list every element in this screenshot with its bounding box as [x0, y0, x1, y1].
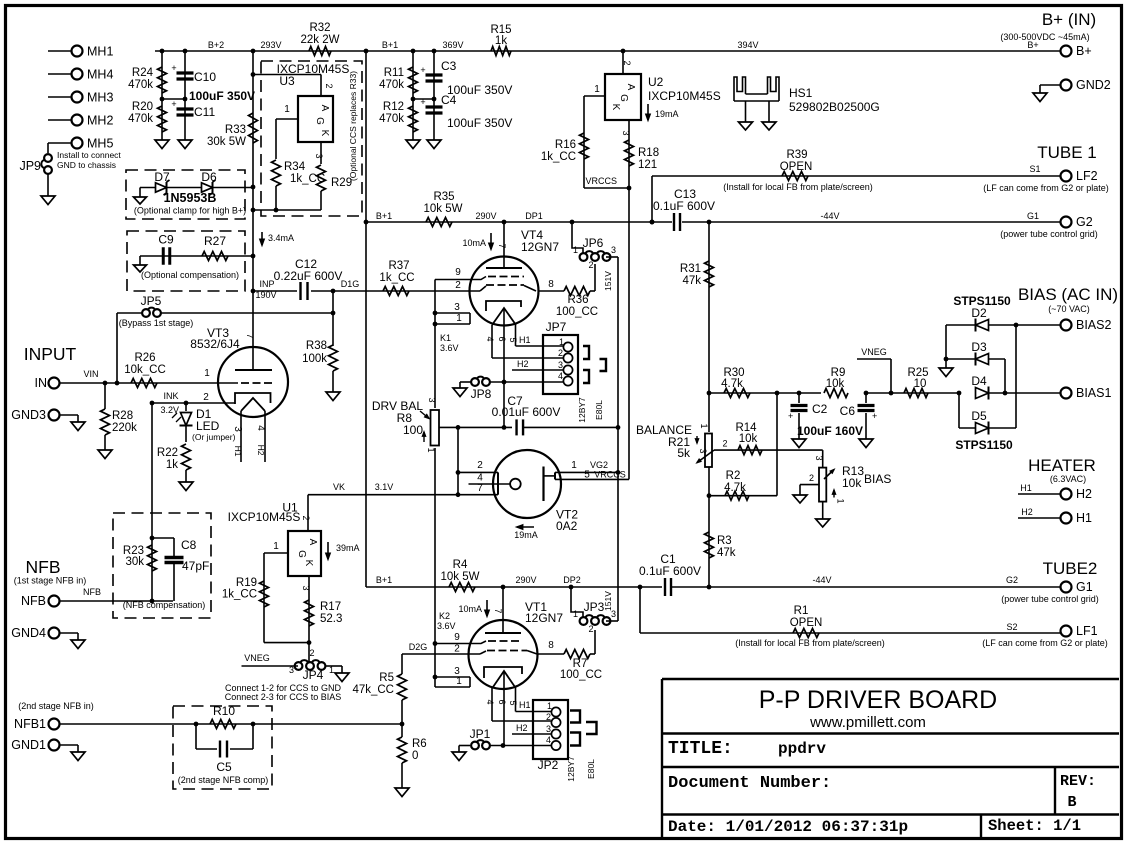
svg-text:INPUT: INPUT [24, 344, 77, 364]
svg-text:R39: R39 [786, 149, 807, 161]
svg-text:-44V: -44V [812, 575, 831, 585]
svg-text:1k: 1k [495, 35, 507, 47]
svg-text:G: G [296, 550, 307, 558]
svg-text:6: 6 [497, 336, 507, 341]
svg-text:1: 1 [284, 104, 290, 115]
svg-text:ppdrv: ppdrv [778, 740, 826, 758]
svg-text:394V: 394V [737, 40, 758, 50]
svg-text:H1: H1 [233, 446, 243, 457]
svg-text:H2: H2 [256, 445, 266, 456]
svg-text:TUBE2: TUBE2 [1043, 559, 1098, 578]
svg-text:MH4: MH4 [87, 68, 113, 82]
svg-text:(6.3VAC): (6.3VAC) [1050, 474, 1086, 484]
svg-text:(Or jumper): (Or jumper) [192, 432, 236, 442]
svg-text:(300-500VDC ~45mA): (300-500VDC ~45mA) [1000, 32, 1089, 42]
svg-text:3.6V: 3.6V [437, 621, 456, 631]
svg-text:R22: R22 [157, 447, 178, 459]
svg-text:3.4mA: 3.4mA [268, 233, 294, 243]
svg-text:R19: R19 [236, 577, 257, 589]
svg-text:U3: U3 [279, 74, 295, 88]
svg-text:REV:: REV: [1060, 773, 1096, 790]
svg-text:LED: LED [196, 419, 220, 433]
svg-text:3: 3 [611, 245, 616, 255]
svg-text:19mA: 19mA [514, 530, 538, 540]
svg-text:39mA: 39mA [336, 543, 360, 553]
svg-text:BIAS2: BIAS2 [1076, 318, 1111, 332]
svg-text:9: 9 [454, 632, 460, 643]
svg-text:100uF 350V: 100uF 350V [447, 83, 512, 97]
svg-text:100uF 160V: 100uF 160V [797, 424, 863, 438]
svg-text:S2: S2 [1006, 622, 1017, 632]
svg-text:10k_CC: 10k_CC [124, 364, 166, 376]
svg-text:K1: K1 [440, 333, 451, 343]
svg-text:Date: 1/01/2012 06:37:31p: Date: 1/01/2012 06:37:31p [668, 818, 908, 836]
svg-text:H1: H1 [519, 700, 531, 710]
svg-text:47k: 47k [717, 547, 736, 559]
svg-text:R6: R6 [412, 738, 427, 750]
svg-text:JP7: JP7 [546, 320, 567, 334]
svg-text:R24: R24 [132, 67, 154, 79]
svg-text:H2: H2 [1021, 507, 1033, 517]
svg-text:10k: 10k [826, 378, 845, 390]
svg-text:22k 2W: 22k 2W [301, 34, 340, 46]
svg-text:3: 3 [314, 153, 324, 158]
svg-text:JP8: JP8 [471, 387, 492, 401]
svg-text:3: 3 [301, 585, 311, 590]
svg-text:8: 8 [548, 640, 554, 651]
svg-text:IN: IN [35, 376, 48, 390]
svg-text:4.7k: 4.7k [724, 482, 746, 494]
svg-text:B+ (IN): B+ (IN) [1042, 10, 1096, 29]
svg-text:JP4: JP4 [303, 668, 324, 682]
svg-text:2: 2 [722, 439, 727, 449]
svg-text:S1: S1 [1029, 164, 1040, 174]
svg-text:G: G [618, 94, 629, 102]
svg-text:2: 2 [622, 60, 632, 65]
svg-text:NFB: NFB [83, 587, 101, 597]
svg-text:B+2: B+2 [208, 40, 224, 50]
svg-text:(2nd stage NFB comp): (2nd stage NFB comp) [178, 775, 269, 785]
svg-text:1: 1 [329, 665, 334, 675]
svg-text:5: 5 [508, 337, 518, 342]
svg-text:G: G [314, 117, 325, 125]
svg-text:G2: G2 [1076, 215, 1093, 229]
svg-text:1: 1 [836, 498, 846, 503]
svg-text:7: 7 [493, 608, 503, 613]
svg-text:+: + [420, 65, 425, 75]
svg-text:7: 7 [477, 483, 483, 494]
svg-text:10k 5W: 10k 5W [441, 571, 480, 583]
svg-text:A: A [625, 84, 636, 91]
svg-text:0A2: 0A2 [556, 519, 578, 533]
svg-text:2: 2 [454, 644, 460, 655]
svg-text:0.1uF 600V: 0.1uF 600V [653, 199, 715, 213]
svg-text:MH2: MH2 [87, 114, 113, 128]
svg-text:470k: 470k [379, 79, 404, 91]
svg-text:3: 3 [289, 665, 294, 675]
svg-text:3: 3 [546, 724, 551, 734]
svg-text:VK: VK [333, 482, 345, 492]
svg-text:47k_CC: 47k_CC [352, 684, 394, 696]
svg-text:GND3: GND3 [11, 408, 46, 422]
svg-text:5: 5 [584, 470, 590, 481]
svg-text:C3: C3 [441, 59, 457, 73]
svg-text:5: 5 [508, 700, 518, 705]
svg-text:IXCP10M45S: IXCP10M45S [228, 510, 301, 524]
svg-text:R17: R17 [320, 601, 341, 613]
svg-text:G2: G2 [1006, 575, 1018, 585]
svg-text:529802B02500G: 529802B02500G [789, 100, 880, 114]
svg-text:5k: 5k [677, 446, 691, 460]
svg-text:HS1: HS1 [789, 86, 813, 100]
svg-text:www.pmillett.com: www.pmillett.com [809, 714, 926, 731]
svg-text:4.7k: 4.7k [721, 378, 743, 390]
svg-text:3: 3 [454, 302, 460, 313]
svg-text:2: 2 [546, 712, 551, 722]
svg-text:H1: H1 [1020, 483, 1032, 493]
svg-text:STPS1150: STPS1150 [955, 438, 1013, 452]
svg-text:VIN: VIN [83, 369, 98, 379]
svg-text:47pF: 47pF [182, 559, 209, 573]
svg-text:100_CC: 100_CC [556, 306, 598, 318]
svg-text:+: + [788, 411, 793, 421]
svg-text:R1: R1 [794, 605, 809, 617]
svg-text:GND2: GND2 [1076, 78, 1111, 92]
svg-text:30k: 30k [125, 556, 144, 568]
svg-text:1: 1 [456, 676, 462, 687]
svg-text:D6: D6 [201, 170, 217, 184]
svg-text:VG2: VG2 [590, 460, 608, 470]
svg-text:Install to connect: Install to connect [57, 150, 121, 160]
svg-text:VRCCS: VRCCS [585, 176, 617, 186]
svg-text:H2: H2 [517, 359, 529, 369]
svg-text:100_CC: 100_CC [560, 669, 602, 681]
svg-text:TUBE 1: TUBE 1 [1037, 143, 1097, 162]
svg-text:R37: R37 [388, 260, 409, 272]
svg-text:1k: 1k [166, 459, 178, 471]
svg-text:B+: B+ [1027, 40, 1038, 50]
svg-text:1: 1 [559, 337, 564, 347]
svg-text:19mA: 19mA [655, 109, 679, 119]
svg-text:G1: G1 [1076, 580, 1093, 594]
svg-text:C8: C8 [181, 538, 197, 552]
svg-text:3.6V: 3.6V [440, 343, 459, 353]
svg-text:3: 3 [427, 397, 437, 402]
svg-text:D4: D4 [971, 374, 987, 388]
svg-text:K: K [303, 560, 314, 567]
svg-text:GND to chassis: GND to chassis [57, 160, 116, 170]
svg-text:(LF can come from G2 or plate): (LF can come from G2 or plate) [983, 183, 1109, 193]
svg-text:3: 3 [611, 609, 616, 619]
svg-text:2: 2 [558, 348, 563, 358]
svg-text:(LF can come from G2 or plate): (LF can come from G2 or plate) [982, 638, 1108, 648]
svg-text:LF2: LF2 [1076, 169, 1098, 183]
svg-text:2: 2 [309, 648, 314, 658]
svg-text:HEATER: HEATER [1028, 456, 1096, 475]
svg-text:4: 4 [485, 699, 495, 704]
svg-text:B: B [1067, 794, 1076, 811]
svg-text:+: + [171, 99, 176, 109]
svg-text:JP5: JP5 [141, 294, 162, 308]
svg-text:12BY7: 12BY7 [577, 397, 587, 423]
svg-text:NFB: NFB [21, 594, 46, 608]
svg-text:C9: C9 [158, 233, 174, 247]
svg-text:121: 121 [638, 159, 657, 171]
svg-text:D3: D3 [971, 340, 987, 354]
svg-text:6: 6 [497, 699, 507, 704]
svg-text:290V: 290V [515, 575, 536, 585]
svg-text:3.1V: 3.1V [375, 482, 394, 492]
svg-text:(power tube control grid): (power tube control grid) [1001, 594, 1099, 604]
svg-text:B+: B+ [1076, 44, 1092, 58]
svg-text:0.1uF 600V: 0.1uF 600V [639, 564, 701, 578]
svg-text:(Optional clamp for high B+): (Optional clamp for high B+) [134, 206, 246, 216]
svg-text:E80L: E80L [586, 759, 596, 779]
svg-text:369V: 369V [442, 40, 463, 50]
svg-text:4: 4 [546, 735, 551, 745]
svg-text:DP1: DP1 [525, 211, 543, 221]
svg-text:4: 4 [558, 371, 563, 381]
svg-text:1k_CC: 1k_CC [222, 589, 257, 601]
svg-text:JP9: JP9 [19, 159, 41, 173]
svg-text:30k 5W: 30k 5W [207, 136, 246, 148]
svg-text:12GN7: 12GN7 [525, 611, 563, 625]
svg-text:Document Number:: Document Number: [668, 774, 831, 793]
svg-text:D2G: D2G [409, 642, 428, 652]
svg-text:JP6: JP6 [583, 236, 604, 250]
svg-text:H2: H2 [516, 723, 528, 733]
svg-text:K2: K2 [439, 611, 450, 621]
svg-text:10mA: 10mA [462, 238, 486, 248]
svg-text:VNEG: VNEG [244, 653, 270, 663]
svg-text:1k_CC: 1k_CC [379, 272, 414, 284]
svg-text:K: K [610, 104, 621, 111]
svg-text:R34: R34 [284, 161, 306, 173]
svg-text:H1: H1 [519, 335, 531, 345]
svg-text:2: 2 [324, 83, 334, 88]
svg-text:B+1: B+1 [376, 575, 392, 585]
svg-text:10k: 10k [842, 476, 862, 490]
svg-text:C11: C11 [194, 105, 215, 119]
svg-text:2: 2 [809, 473, 814, 483]
svg-text:R2: R2 [726, 470, 741, 482]
svg-text:12GN7: 12GN7 [521, 240, 559, 254]
svg-text:C5: C5 [216, 760, 232, 774]
svg-text:K: K [319, 130, 330, 137]
svg-text:3: 3 [558, 360, 563, 370]
svg-text:3: 3 [621, 130, 631, 135]
svg-text:2: 2 [203, 392, 209, 403]
svg-text:470k: 470k [128, 79, 153, 91]
svg-text:D1G: D1G [341, 279, 360, 289]
svg-text:VNEG: VNEG [861, 347, 887, 357]
svg-text:47k: 47k [682, 275, 701, 287]
svg-text:R18: R18 [638, 147, 659, 159]
svg-text:8532/6J4: 8532/6J4 [190, 337, 240, 351]
svg-text:1: 1 [456, 313, 462, 324]
svg-text:INK: INK [163, 391, 178, 401]
svg-text:10mA: 10mA [458, 604, 482, 614]
svg-text:1: 1 [699, 423, 709, 428]
svg-text:100k: 100k [302, 353, 327, 365]
svg-text:BIAS: BIAS [864, 472, 891, 486]
svg-text:C6: C6 [840, 404, 856, 418]
svg-text:R33: R33 [225, 124, 246, 136]
svg-text:R31: R31 [680, 263, 701, 275]
svg-text:A: A [307, 539, 318, 546]
svg-text:(2nd stage NFB in): (2nd stage NFB in) [18, 701, 94, 711]
svg-text:12BY7: 12BY7 [566, 756, 576, 782]
svg-text:100uF 350V: 100uF 350V [189, 89, 255, 103]
svg-text:LF1: LF1 [1076, 624, 1098, 638]
svg-text:A: A [319, 105, 330, 112]
svg-text:0.22uF 600V: 0.22uF 600V [274, 269, 343, 283]
svg-text:H1: H1 [1076, 511, 1092, 525]
svg-text:OPEN: OPEN [780, 161, 813, 173]
svg-text:+: + [872, 411, 877, 421]
svg-text:1: 1 [273, 541, 279, 552]
svg-text:R5: R5 [379, 672, 394, 684]
svg-text:7: 7 [497, 243, 507, 248]
svg-text:R3: R3 [717, 535, 732, 547]
svg-text:C10: C10 [194, 70, 216, 84]
svg-text:(Bypass 1st stage): (Bypass 1st stage) [119, 318, 194, 328]
svg-text:JP3: JP3 [584, 600, 605, 614]
svg-text:2: 2 [477, 460, 483, 471]
svg-text:0: 0 [412, 750, 418, 762]
svg-text:MH1: MH1 [87, 45, 113, 59]
svg-text:2: 2 [588, 624, 593, 634]
svg-text:E80L: E80L [594, 400, 604, 420]
svg-text:Connect 2-3 for CCS to BIAS: Connect 2-3 for CCS to BIAS [225, 692, 342, 702]
svg-text:VRCCS: VRCCS [594, 470, 626, 480]
svg-text:1: 1 [547, 701, 552, 711]
svg-text:R27: R27 [204, 234, 226, 248]
svg-text:(~70 VAC): (~70 VAC) [1048, 304, 1090, 314]
svg-text:290V: 290V [475, 211, 496, 221]
svg-text:0.01uF 600V: 0.01uF 600V [492, 405, 561, 419]
svg-text:R32: R32 [309, 22, 330, 34]
svg-text:52.3: 52.3 [320, 613, 342, 625]
svg-text:(Install for local FB from pla: (Install for local FB from plate/screen) [723, 182, 873, 192]
svg-text:2: 2 [455, 280, 461, 291]
svg-text:7: 7 [245, 333, 255, 338]
svg-text:1N5953B: 1N5953B [164, 191, 217, 205]
svg-text:C2: C2 [812, 402, 828, 416]
svg-text:1k_CC: 1k_CC [541, 151, 576, 163]
svg-text:10: 10 [914, 378, 927, 390]
svg-text:GND1: GND1 [11, 738, 46, 752]
svg-text:JP2: JP2 [538, 758, 559, 772]
svg-text:470k: 470k [128, 113, 153, 125]
svg-text:H2: H2 [1076, 487, 1092, 501]
svg-text:470k: 470k [379, 113, 404, 125]
svg-text:R38: R38 [306, 340, 327, 352]
svg-text:10k 5W: 10k 5W [424, 203, 463, 215]
svg-text:9: 9 [455, 267, 461, 278]
svg-text:D7: D7 [154, 170, 170, 184]
svg-text:293V: 293V [260, 40, 281, 50]
svg-text:(Optional compensation): (Optional compensation) [141, 270, 239, 280]
svg-text:4: 4 [485, 336, 495, 341]
svg-text:BIAS (AC IN): BIAS (AC IN) [1018, 285, 1118, 304]
svg-text:B+1: B+1 [382, 40, 398, 50]
svg-text:10k: 10k [739, 433, 758, 445]
svg-text:3: 3 [698, 448, 708, 453]
svg-text:INP: INP [259, 279, 274, 289]
svg-text:OPEN: OPEN [790, 617, 823, 629]
svg-text:R10: R10 [213, 704, 235, 718]
svg-text:BIAS1: BIAS1 [1076, 386, 1111, 400]
svg-text:DP2: DP2 [563, 575, 581, 585]
svg-text:R11: R11 [384, 67, 404, 79]
svg-text:R20: R20 [132, 101, 153, 113]
svg-text:151V: 151V [603, 271, 613, 291]
svg-text:3: 3 [814, 455, 824, 460]
svg-text:151V: 151V [603, 591, 613, 611]
svg-text:1: 1 [571, 460, 577, 471]
svg-text:G1: G1 [1027, 211, 1039, 221]
svg-text:1: 1 [204, 368, 210, 379]
svg-text:U2: U2 [648, 75, 664, 89]
svg-text:GND4: GND4 [11, 626, 46, 640]
svg-text:JP1: JP1 [470, 727, 491, 741]
svg-text:1k_CC: 1k_CC [290, 173, 325, 185]
svg-text:MH5: MH5 [87, 137, 113, 151]
svg-text:(Install for local FB from pla: (Install for local FB from plate/screen) [735, 638, 885, 648]
svg-text:R28: R28 [112, 410, 133, 422]
svg-text:NFB: NFB [26, 557, 61, 577]
svg-text:R26: R26 [134, 352, 155, 364]
svg-text:100uF 350V: 100uF 350V [447, 116, 512, 130]
svg-text:(1st stage NFB in): (1st stage NFB in) [14, 576, 87, 586]
svg-text:R12: R12 [383, 101, 404, 113]
svg-text:220k: 220k [112, 422, 137, 434]
svg-text:R4: R4 [453, 559, 468, 571]
svg-text:(Optional CCS replaces R33): (Optional CCS replaces R33) [348, 71, 358, 181]
svg-text:1: 1 [573, 609, 578, 619]
svg-text:1: 1 [573, 245, 578, 255]
svg-text:1: 1 [594, 84, 600, 95]
svg-text:P-P DRIVER BOARD: P-P DRIVER BOARD [759, 686, 997, 714]
svg-text:D5: D5 [971, 409, 987, 423]
svg-text:4: 4 [477, 473, 483, 484]
svg-text:2: 2 [588, 260, 593, 270]
svg-text:IXCP10M45S: IXCP10M45S [648, 89, 721, 103]
svg-text:(power tube control grid): (power tube control grid) [1000, 229, 1098, 239]
svg-text:B+1: B+1 [376, 211, 392, 221]
svg-text:+: + [171, 63, 176, 73]
svg-text:100: 100 [403, 423, 423, 437]
svg-text:MH3: MH3 [87, 91, 113, 105]
svg-text:-44V: -44V [820, 211, 839, 221]
svg-text:D2: D2 [971, 306, 987, 320]
svg-text:8: 8 [548, 279, 554, 290]
svg-text:Sheet: 1/1: Sheet: 1/1 [988, 817, 1081, 835]
svg-text:NFB1: NFB1 [14, 717, 46, 731]
svg-text:R16: R16 [555, 139, 576, 151]
svg-text:R36: R36 [567, 294, 588, 306]
svg-text:190V: 190V [255, 290, 276, 300]
svg-text:2: 2 [301, 515, 311, 520]
svg-text:TITLE:: TITLE: [668, 739, 733, 759]
svg-text:4: 4 [255, 425, 266, 431]
svg-text:R35: R35 [433, 191, 454, 203]
